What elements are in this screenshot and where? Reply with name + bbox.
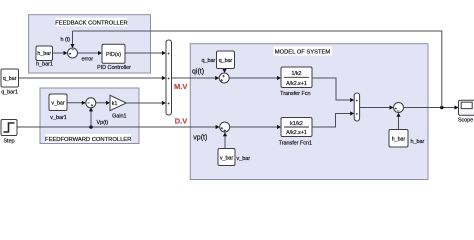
svg-text:FEEDFORWARD CONTROLLER: FEEDFORWARD CONTROLLER — [45, 137, 131, 143]
svg-text:MODEL OF SYSTEM: MODEL OF SYSTEM — [275, 50, 331, 56]
svg-text:D.V: D.V — [175, 117, 189, 126]
svg-text:h (t): h (t) — [61, 37, 71, 43]
wire output sum to scope — [404, 107, 458, 109]
svg-text:k1: k1 — [112, 101, 118, 107]
sum bar 2 (2-input rectangular sum) — [354, 93, 359, 121]
svg-text:Step: Step — [3, 139, 14, 145]
svg-text:k1/k2: k1/k2 — [290, 121, 303, 127]
step source block — [1, 120, 17, 145]
svg-text:q_bar: q_bar — [3, 76, 17, 82]
svg-text:v_bar: v_bar — [220, 156, 233, 162]
svg-text:Transfer Fcn: Transfer Fcn — [280, 91, 310, 97]
svg-text:vp(t): vp(t) — [193, 134, 207, 141]
wire transfer fcn1 to mux-sum bar2 — [312, 114, 353, 128]
feedback controller title — [56, 18, 128, 27]
constant v_bar (model) — [218, 149, 235, 166]
svg-text:q_bar1: q_bar1 — [1, 90, 18, 96]
svg-text:Scope: Scope — [458, 118, 473, 124]
transfer fcn1 (lower) — [279, 118, 312, 147]
svg-text:Transfer Fcn1: Transfer Fcn1 — [279, 140, 312, 146]
wire vp sum to transfer fcn1 — [230, 126, 280, 128]
svg-text:q_bar: q_bar — [219, 58, 233, 64]
wire error sum to PID — [78, 52, 101, 54]
svg-text:1/k2: 1/k2 — [291, 71, 301, 77]
sum (model output, subtract h_bar) — [394, 103, 404, 113]
svg-text:M.V: M.V — [174, 82, 188, 91]
svg-text:qi(t): qi(t) — [192, 68, 204, 75]
constant h_bar (model) — [389, 130, 408, 148]
junction Vp tap — [89, 125, 93, 129]
wire model h_bar up to output sum — [398, 114, 400, 130]
svg-text:v_bar: v_bar — [237, 156, 251, 162]
constant h_bar — [36, 46, 53, 68]
transfer fcn (upper) — [280, 67, 312, 97]
svg-text:PID(s): PID(s) — [106, 52, 121, 58]
svg-text:h_bar1: h_bar1 — [36, 62, 53, 68]
feedback controller area box — [29, 15, 151, 73]
svg-text:A/k2.s+1: A/k2.s+1 — [286, 81, 307, 87]
scope — [458, 100, 474, 123]
feedforward controller title — [46, 134, 132, 143]
sum bar (3-input rectangular sum) — [166, 40, 172, 115]
wire sum bar to model qi sum : M.V — [172, 77, 218, 79]
junction output/feedback — [440, 106, 444, 110]
gain Gain1 k1 — [110, 95, 126, 119]
svg-text:A/k2.s+1: A/k2.s+1 — [286, 130, 307, 136]
svg-text:Vp(t): Vp(t) — [97, 120, 109, 126]
sum (feedback error) — [68, 48, 78, 58]
sum (feedforward) — [86, 98, 96, 108]
h(t) feedback drop into sum — [72, 31, 74, 47]
sum (model qi) — [219, 73, 229, 83]
svg-text:h_bar: h_bar — [37, 51, 51, 57]
constant v_bar — [49, 94, 67, 121]
svg-text:FEEDBACK CONTROLLER: FEEDBACK CONTROLLER — [55, 21, 127, 27]
svg-text:PID Controller: PID Controller — [97, 65, 131, 71]
svg-text:v_bar1: v_bar1 — [50, 115, 66, 121]
wire transfer fcn to mux-sum bar2 — [312, 78, 353, 100]
svg-text:Gain1: Gain1 — [112, 114, 126, 120]
wire gain to sum bar — [126, 102, 164, 104]
model of system title — [274, 47, 333, 56]
wire feedback loop h(t) — [73, 31, 442, 108]
wire model q_bar down to qi sum — [224, 69, 226, 72]
svg-text:q_bar: q_bar — [202, 58, 216, 64]
wire PID to sum bar — [125, 52, 164, 54]
model of system area box — [190, 44, 428, 180]
PID controller U: PID(s) — [97, 44, 131, 71]
wire bar2 to output sum — [360, 107, 392, 109]
wire ff sum to gain — [96, 102, 109, 104]
wire q_bar to sum bar — [19, 77, 165, 79]
svg-text:error: error — [82, 56, 94, 62]
svg-text:v_bar: v_bar — [51, 101, 64, 107]
svg-text:h_bar: h_bar — [411, 139, 425, 145]
wire step to model vp sum (D.V line) — [17, 126, 218, 128]
wire Vp tap up to feedforward sum — [90, 109, 92, 128]
feedforward controller area box — [40, 88, 139, 144]
wire qi sum to transfer fcn — [229, 77, 279, 79]
wire v_bar to ff sum — [67, 102, 84, 104]
wire model v_bar up to vp sum — [224, 134, 226, 149]
svg-text:h_bar: h_bar — [392, 137, 406, 143]
wire h_bar to sum — [53, 52, 67, 54]
sum (model vp) — [220, 122, 230, 132]
constant q_bar (model) — [217, 51, 235, 69]
constant q_bar (source) — [1, 69, 19, 96]
